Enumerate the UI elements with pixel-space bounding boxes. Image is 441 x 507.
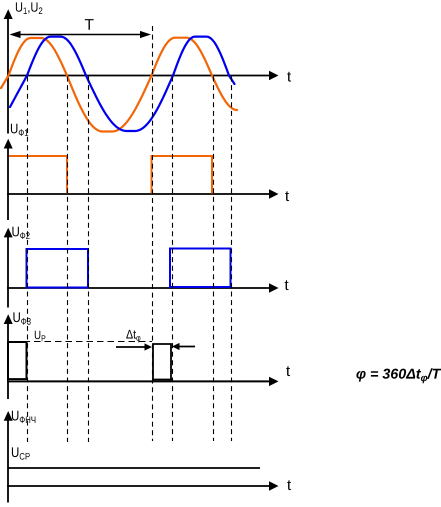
label U1,U2 <box>16 2 42 14</box>
label t section 5 <box>287 480 291 490</box>
section 2 horizontal axis <box>7 193 270 195</box>
blue pulse 2 section 3 <box>170 249 231 288</box>
dashed vertical line x=172.5 <box>172 77 174 442</box>
section 1 vertical axis arrowhead <box>4 9 13 19</box>
sine wave U1 (orange) <box>1 38 237 132</box>
dashed vertical line x=213 <box>213 77 215 442</box>
section 1 t-axis arrowhead <box>269 71 279 80</box>
section 4 vertical axis <box>7 323 9 399</box>
label U_FNCH <box>12 411 36 423</box>
dashed vertical line x=88 <box>88 77 90 443</box>
label t section 4 <box>286 366 290 376</box>
label t section 3 <box>285 280 289 290</box>
label U_F2 <box>12 227 29 239</box>
sine wave U2 (blue) <box>10 37 235 131</box>
label U_F3 <box>13 312 30 324</box>
dashed vertical line x=67 <box>67 77 69 443</box>
section 3 horizontal axis <box>7 287 270 289</box>
delta-t right arrow <box>178 346 195 348</box>
label t section 1 <box>287 72 291 82</box>
dashed vertical line x=152 <box>152 26 154 441</box>
section 2 vertical axis <box>7 147 9 220</box>
formula phi = 360 dt/T <box>356 368 441 383</box>
orange pulse 2 section 2 <box>152 156 213 194</box>
dashed vertical line x=231 <box>231 77 233 442</box>
section 5 horizontal axis <box>7 485 270 487</box>
section 3 vertical axis <box>7 236 9 308</box>
section 1 horizontal axis (t) <box>7 75 270 77</box>
U_P dashed level line <box>13 341 152 343</box>
U_CP level line <box>8 467 260 469</box>
orange pulse 1 section 2 <box>9 156 67 194</box>
section 4 horizontal axis <box>7 380 270 382</box>
label U_P <box>35 331 46 342</box>
black pulse 1 section 4 <box>8 342 27 380</box>
label T <box>85 19 94 30</box>
section 5 vertical axis <box>7 420 9 503</box>
dashed vertical line x=27 <box>27 77 29 443</box>
delta-t left arrow <box>116 346 146 348</box>
section 1 vertical axis <box>7 16 9 134</box>
label delta-t-phi <box>126 330 140 343</box>
blue pulse 1 section 3 <box>27 249 89 288</box>
label U_CP <box>12 447 30 459</box>
label t section 2 <box>285 191 289 201</box>
T measurement arrow <box>12 34 148 36</box>
label U_F1 <box>11 124 28 136</box>
black pulse 2 section 4 <box>153 344 171 380</box>
